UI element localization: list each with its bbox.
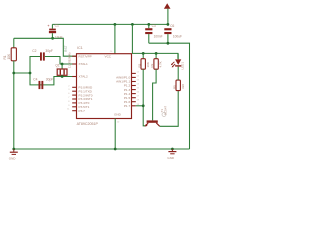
svg-text:12: 12 [137,75,140,77]
node junction R1/crystal gnd branch [12,72,15,75]
wire crystal caps gnd vertical [30,57,40,85]
svg-text:Q1: Q1 [55,64,59,68]
pin P1.2 stub [132,85,136,87]
svg-text:3: 3 [68,89,70,91]
svg-text:14: 14 [137,84,140,86]
svg-text:+: + [47,23,50,28]
wire RST net [14,38,77,56]
pin P3.5 stub [72,106,76,108]
wire XTAL2 net [39,77,77,85]
pin P1.7 stub [132,105,136,107]
svg-text:GND: GND [114,112,122,116]
svg-text:15: 15 [137,88,140,90]
node junction XTAL1/crystal top [61,63,64,66]
svg-text:100uF: 100uF [173,35,182,39]
vcc power arrow VCC [164,3,171,24]
pin P1.3 stub [132,89,136,91]
node junction gnd rail left corner [12,148,15,151]
svg-text:AT89C2051P: AT89C2051P [77,122,99,126]
node junction XTAL2/crystal bottom [61,75,64,78]
crystal Q1 [57,64,67,77]
node junction resistor rail at R2 [142,52,145,55]
resistor R1 [11,38,16,73]
wire P1.7 to node [136,105,143,107]
node junction C6 bottom [167,42,170,45]
pin P3.7 stub [72,110,76,112]
node junction on VCC rail at arrow/C6 [167,23,170,26]
node junction gnd rail IC pin [114,148,117,151]
node junction on VCC rail at resistor-feed drop [131,23,134,26]
svg-text:LED1: LED1 [181,62,185,70]
wire R3 bottom to base [153,69,157,120]
wire collector to LED chain [160,91,179,127]
capacitor C2 [40,52,45,60]
node junction at C1 bottom [51,37,54,40]
svg-text:IC1: IC1 [77,46,83,50]
svg-text:C1: C1 [55,23,59,27]
wire R2 bottom to emitter / pin node [143,69,145,126]
svg-text:VCC: VCC [105,54,112,58]
pin P1.1 stub [132,81,136,83]
svg-text:R2: R2 [137,63,141,67]
svg-text:13: 13 [137,80,140,82]
svg-text:RST: RST [64,45,68,51]
ground symbol right [167,149,176,160]
svg-text:RST/VPP: RST/VPP [79,54,92,58]
node junction caps gnd [29,72,32,75]
node junction P1.7/R2 [142,104,145,107]
svg-text:330: 330 [181,84,185,89]
svg-text:GND: GND [167,156,175,160]
svg-text:2: 2 [68,85,70,87]
wire IC GND pin to ground rail [114,119,116,150]
svg-text:12: 12 [137,71,140,73]
pin P3.4 stub [72,102,76,104]
capacitor C6 [164,28,171,43]
svg-text:C4: C4 [33,77,37,81]
svg-text:10K: 10K [146,62,150,67]
pin P1.6 stub [132,101,136,103]
svg-text:XTAL1: XTAL1 [79,62,89,66]
svg-text:R5: R5 [172,85,176,89]
LED LED1 [171,53,182,67]
pin XTAL1 stub [72,63,76,65]
svg-text:20: 20 [110,51,113,53]
pin P1.5 stub [132,97,136,99]
wire top VCC rail [52,23,168,25]
pin P3.1 stub [72,90,76,92]
svg-text:16: 16 [137,92,140,94]
node junction on VCC rail at C3 [147,23,150,26]
pin P3.3 stub [72,98,76,100]
svg-text:GND: GND [9,157,16,161]
svg-text:6: 6 [68,93,70,95]
wire XTAL1 net [45,57,77,65]
svg-text:100nF: 100nF [154,35,163,39]
svg-text:R3: R3 [150,63,154,67]
wire VCC feed to resistor rail [132,24,178,58]
svg-text:11: 11 [67,109,70,111]
resistor R3 [154,53,158,69]
resistor R5 330 [176,67,180,91]
node junction resistor rail at R3 [155,52,158,55]
pin P1.4 stub [132,93,136,95]
node junction on VCC rail at IC VCC pin drop [114,23,117,26]
pin P1.0a stub [132,72,136,74]
wire R1 bottom to ground rail [13,73,15,149]
svg-text:C2: C2 [32,49,36,53]
svg-text:8: 8 [68,101,70,103]
wire branch to crystal caps gnd [14,72,30,74]
resistor R2 [141,53,145,69]
svg-text:C3: C3 [152,24,156,28]
capacitor C3 [145,24,152,43]
op-amp/IC box IC1 AT89C2051 [77,54,132,119]
svg-text:4.7K: 4.7K [159,61,163,67]
wire bottom ground rail [14,148,190,150]
node junction gnd rail symbol [171,148,174,151]
svg-text:10: 10 [117,122,120,124]
pin XTAL2 stub [72,76,76,78]
svg-text:P3.7: P3.7 [79,109,86,113]
svg-text:9: 9 [68,105,70,107]
svg-text:7: 7 [68,97,70,99]
svg-text:30pF: 30pF [46,77,54,81]
capacitor C1 [47,23,56,38]
svg-text:17: 17 [137,96,140,98]
svg-text:18: 18 [137,100,140,102]
pin P3.0 stub [72,86,76,88]
pin P3.2 stub [72,94,76,96]
ground symbol left [9,149,18,161]
svg-text:P1.7: P1.7 [124,104,131,108]
svg-text:10K: 10K [7,53,11,60]
svg-text:C6: C6 [170,24,174,28]
transistor T1 [145,120,160,126]
pin RST/VPP stub [72,55,76,57]
wire caps bottom to right rail [149,43,190,149]
capacitor C4 [39,81,44,89]
wire VCC pin drop to IC top [114,24,116,53]
pin P1.0 stub [132,76,136,78]
transistor origin mark [162,113,166,117]
svg-text:XTAL2: XTAL2 [79,75,89,79]
svg-text:30pF: 30pF [45,49,53,53]
